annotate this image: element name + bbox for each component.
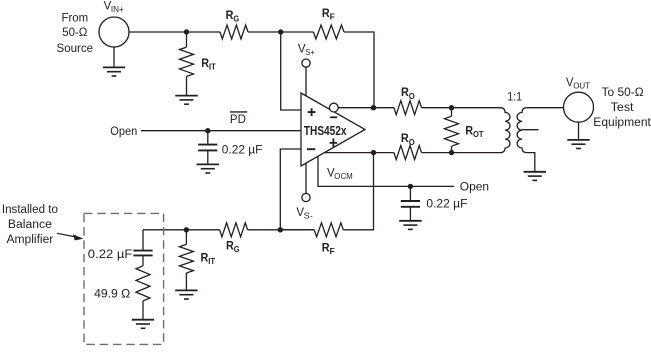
transformer T1 primary	[501, 108, 510, 153]
pin + output sign	[330, 138, 338, 147]
node PD junction	[205, 128, 210, 133]
svg-text:OT: OT	[473, 129, 484, 139]
dashed box installed-to-balance	[84, 213, 164, 344]
svg-text:PD: PD	[230, 112, 246, 126]
center tap stub	[522, 129, 539, 131]
ground under R_IT top	[175, 96, 197, 105]
resistor R_IT (bottom)	[185, 230, 187, 245]
capacitor 0.22uF on PD	[207, 131, 209, 145]
svg-text:O: O	[409, 91, 415, 101]
svg-text:THS452x: THS452x	[304, 124, 347, 138]
svg-text:IT: IT	[208, 256, 215, 266]
ground under V_OUT	[567, 140, 589, 149]
svg-text:0.22 µF: 0.22 µF	[88, 249, 133, 261]
svg-text:Equipment: Equipment	[593, 117, 651, 129]
node bottom rail junction	[278, 227, 283, 232]
wire secondary bottom to ground	[527, 153, 535, 172]
svg-text:To 50-Ω: To 50-Ω	[602, 87, 644, 99]
resistor R_F (top)	[313, 25, 344, 39]
svg-text:From: From	[62, 13, 89, 25]
wire secondary top to V_OUT	[527, 107, 564, 109]
pin + input	[308, 108, 316, 116]
svg-text:Balance: Balance	[8, 219, 52, 231]
resistor R_G (top)	[220, 25, 248, 39]
svg-text:49.9 Ω: 49.9 Ω	[94, 288, 131, 300]
ground under transformer	[524, 172, 546, 181]
resistor R_IT (top)	[186, 32, 188, 47]
wire top output	[338, 107, 374, 109]
node bottom output junction	[371, 150, 376, 155]
wire V_S+ to amp	[305, 67, 307, 96]
wire R_F down to output node	[344, 32, 374, 108]
capacitor 0.22uF on V_OCM	[409, 186, 411, 200]
svg-text:50-Ω: 50-Ω	[62, 27, 88, 39]
wire rail to -input	[280, 149, 301, 230]
svg-text:Open: Open	[460, 182, 489, 194]
resistor R_F (bottom)	[314, 223, 343, 237]
wire source to ground	[113, 47, 115, 67]
resistor 49.9 ohm	[136, 266, 150, 301]
wire bottom rail	[143, 229, 220, 231]
wire Open to PD pin	[141, 130, 301, 132]
transformer T1 secondary	[517, 108, 526, 153]
node R_OT bottom junction	[449, 150, 454, 155]
node junction top rail	[278, 29, 283, 34]
wire R_F to -input rail	[280, 229, 314, 231]
svg-text:IT: IT	[209, 61, 216, 71]
svg-text:0.22 µF: 0.22 µF	[222, 144, 263, 156]
op-amp U1 THS452x triangle	[301, 93, 365, 166]
annotation arrow	[57, 233, 76, 237]
resistor R_O (top)	[374, 107, 394, 109]
node V_OCM junction	[408, 184, 413, 189]
wire rail to +input	[281, 32, 301, 110]
svg-text:F: F	[330, 12, 335, 22]
svg-text:O: O	[409, 137, 415, 147]
wire R_G to R_F	[248, 31, 313, 33]
ground under V_OCM cap	[399, 221, 421, 230]
svg-text:Installed to: Installed to	[2, 204, 58, 216]
wire V_S-	[305, 163, 307, 193]
node junction input	[184, 29, 189, 34]
wire bottom output to R_F bottom	[343, 153, 373, 230]
source V_OUT circle	[564, 92, 594, 122]
svg-text:Test: Test	[611, 102, 635, 114]
svg-text:OUT: OUT	[573, 81, 590, 90]
ground under R_IT bottom	[175, 290, 197, 299]
svg-text:Amplifier: Amplifier	[7, 234, 54, 246]
pin - output sign	[330, 116, 337, 118]
label PD with overline	[230, 111, 247, 113]
wire V_OCM	[318, 156, 454, 186]
svg-text:1:1: 1:1	[507, 91, 522, 103]
terminal V_S+	[302, 59, 310, 67]
svg-text:F: F	[330, 246, 335, 256]
wire V_OUT to ground	[578, 122, 580, 140]
svg-text:IN+: IN+	[111, 5, 124, 14]
wire source to R_G	[129, 31, 220, 33]
output inversion bubble	[329, 103, 338, 112]
node R_OT top junction	[449, 105, 454, 110]
source V_IN+ circle	[99, 17, 129, 47]
svg-text:G: G	[234, 244, 240, 254]
resistor R_OT	[451, 108, 453, 117]
ground under 49.9 ohm	[132, 320, 154, 329]
svg-text:G: G	[233, 14, 239, 24]
svg-text:Source: Source	[57, 43, 94, 55]
pin - input	[307, 148, 315, 150]
wire balance branch	[142, 230, 144, 250]
svg-text:0.22 µF: 0.22 µF	[426, 199, 467, 211]
svg-text:S+: S+	[305, 48, 315, 57]
svg-text:S-: S-	[304, 211, 313, 220]
capacitor 0.22uF balance	[133, 251, 152, 256]
node bottom R_IT junction	[184, 227, 189, 232]
wire bottom output	[324, 152, 394, 154]
ground under source	[103, 67, 125, 76]
resistor R_O (bottom)	[394, 146, 422, 160]
svg-text:OCM: OCM	[334, 172, 353, 181]
svg-text:Open: Open	[110, 126, 137, 138]
terminal V_S-	[302, 193, 310, 201]
resistor R_G (bottom)	[220, 223, 248, 237]
wire R_G to R_F bottom	[248, 229, 315, 231]
ground under PD cap	[197, 164, 219, 173]
node top output junction	[371, 105, 376, 110]
